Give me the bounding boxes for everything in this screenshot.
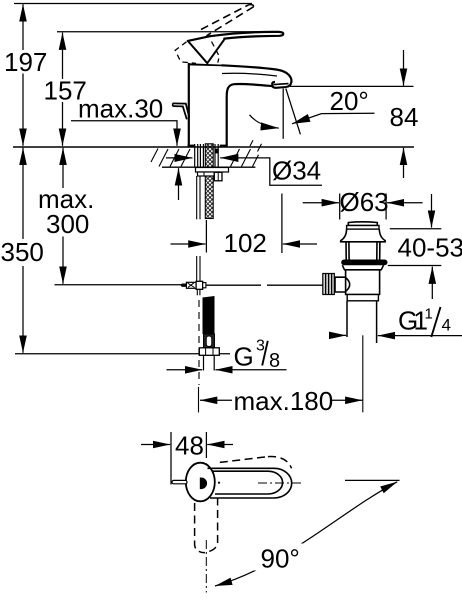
top view: dimension 48 [141,431,233,485]
svg-text:84: 84 [390,102,419,132]
faucet shank and mounting below deck [195,144,229,220]
top view: centerlines [206,483,302,593]
svg-text:20°: 20° [330,86,369,116]
handle raised position (dashed) [175,5,253,64]
dimension max.300 (pull rod length) [38,148,94,284]
svg-text:Ø63: Ø63 [340,187,389,217]
dimension 102 (drain offset) [171,194,318,259]
svg-text:197: 197 [4,47,47,77]
pop-up pull rod knob [173,103,190,118]
pop-up operating rod assembly [55,256,323,295]
svg-text:300: 300 [46,209,89,239]
top view: handle knob and lever [172,463,292,502]
svg-text:3: 3 [256,338,265,355]
svg-text:1: 1 [425,306,433,323]
svg-text:max.30: max.30 [78,94,163,124]
Ø34 callout (deck hole) [166,156,322,186]
svg-text:G: G [234,342,254,372]
svg-text:102: 102 [224,228,267,258]
dimension 350 (supply hose length) [1,148,231,354]
supply hose end with G3/8 thread [199,296,219,371]
spout aerator [272,82,291,88]
water stream lines [283,89,300,139]
dimension max.180 [200,386,362,416]
faucet body [188,63,292,147]
dimension Ø63 (drain flange) [303,187,423,220]
dimension 157 (height to lever) [44,32,266,146]
svg-text:40-53: 40-53 [398,233,462,263]
dimension 84 (spout height) [290,50,418,178]
20 degree arc arrow [250,115,279,128]
svg-text:Ø34: Ø34 [272,156,321,186]
top view: handle rotated (dashed) [195,457,292,553]
dashed centerline below faucet [198,300,201,412]
handle lever (solid) [188,32,283,63]
countertop deck section [13,140,414,167]
90 degree swing dimension [215,480,400,586]
G 3/8 dimension [167,338,287,373]
dimension 197 (height to raised lever) [4,4,252,146]
dimension max.30 (deck thickness) [71,94,179,201]
G1 1/4 dimension (drain thread) [329,306,462,338]
svg-text:48: 48 [175,431,204,461]
svg-text:90°: 90° [261,544,300,574]
20 degree label with leader [292,86,375,124]
dimension 40-53 (basin clamping range) [388,194,462,299]
svg-text:max.180: max.180 [234,386,334,416]
svg-text:350: 350 [1,237,44,267]
pop-up drain body [323,222,388,413]
svg-text:8: 8 [269,350,280,372]
svg-text:4: 4 [442,316,451,335]
